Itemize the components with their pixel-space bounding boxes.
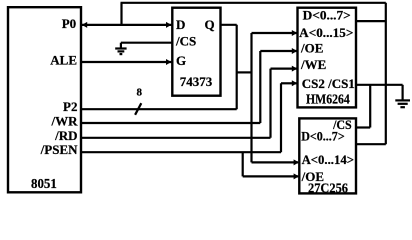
wire D<0...7> of HM6264 to data bus — [356, 20, 386, 22]
svg-text:D: D — [176, 17, 185, 32]
ground G1 bar3 — [120, 53, 123, 55]
wire /CS of 27C256 up to ground wire — [369, 85, 371, 128]
ground G1 stem — [120, 43, 122, 49]
svg-text:74373: 74373 — [180, 74, 213, 89]
ground G1 bar2 — [118, 50, 125, 52]
ground G2 bar1 — [395, 99, 410, 101]
svg-text:ALE: ALE — [50, 53, 77, 68]
wire data bus vertical right — [385, 3, 387, 144]
wire Q vertical down to P2 — [236, 25, 238, 109]
wire latch Q out — [221, 24, 237, 26]
wire /PSEN from 8051 — [81, 151, 281, 153]
svg-text:/WE: /WE — [300, 57, 326, 72]
arrowhead into /OE of 27C256 — [294, 173, 299, 179]
RAM HM6264 box — [298, 8, 357, 108]
svg-text:A<0...15>: A<0...15> — [299, 25, 353, 40]
svg-text:27C256: 27C256 — [308, 182, 348, 197]
arrowhead into 8051 P0 — [82, 22, 87, 28]
wire D<0...7> of 27C256 to data bus — [356, 143, 386, 145]
wire into /WE of HM6264 — [271, 67, 297, 69]
svg-text:/RD: /RD — [54, 128, 77, 143]
wire branch P0 up to top data bus — [120, 3, 122, 25]
wire bridge Q/P2 to address vertical — [237, 71, 252, 73]
ground G1 bar1 — [115, 47, 126, 49]
wire into /OE of HM6264 — [260, 50, 296, 52]
svg-text:G: G — [176, 53, 186, 68]
wire top data bus — [121, 2, 386, 4]
wire into /OE of 27C256 — [243, 175, 299, 177]
wire /WR from 8051 — [81, 122, 260, 124]
ground G2 bar3 — [400, 106, 405, 108]
ground G2 stem — [402, 85, 404, 101]
bus width slash on P2 — [135, 103, 141, 115]
latch 74373 box — [172, 8, 220, 96]
ground G2 bar2 — [398, 103, 408, 105]
svg-text:Q: Q — [204, 17, 214, 32]
wire into CS2 of HM6264 — [281, 82, 297, 84]
arrowhead into /WE of HM6264 — [292, 66, 297, 72]
svg-text:/WR: /WR — [51, 114, 79, 129]
svg-text:CS2 /CS1: CS2 /CS1 — [302, 76, 355, 91]
wire address vertical — [250, 33, 252, 162]
svg-text:HM6264: HM6264 — [306, 92, 350, 107]
arrowhead into latch D — [166, 22, 171, 28]
svg-text:P0: P0 — [62, 16, 76, 31]
wire P2 from 8051 — [81, 108, 237, 110]
wire /PSEN branch down to 27C256 /OE — [242, 152, 244, 176]
wire /RD up to HM6264 /WE — [269, 69, 271, 138]
arrowhead into A<0...14> — [294, 159, 299, 165]
svg-text:/OE: /OE — [300, 41, 323, 56]
wire latch /CS to ground — [121, 42, 172, 44]
wire address to HM6264 A<0...15> — [252, 32, 297, 34]
ROM 27C256 box — [299, 118, 356, 193]
wire CS1 of HM6264 to ground — [356, 84, 403, 86]
arrowhead into CS2 of HM6264 — [292, 80, 297, 86]
svg-text:A<0...14>: A<0...14> — [302, 152, 354, 167]
svg-text:/PSEN: /PSEN — [40, 142, 78, 157]
arrowhead into latch G — [166, 59, 171, 65]
svg-text:D<0...7>: D<0...7> — [301, 128, 345, 143]
8051 U1 box — [8, 7, 81, 192]
wire P0 bus (8051 P0 to latch D, bidirectional) — [81, 24, 172, 26]
svg-text:8051: 8051 — [31, 177, 57, 192]
svg-text:P2: P2 — [63, 99, 77, 114]
svg-text:/CS: /CS — [175, 34, 196, 49]
wire ALE to latch G — [81, 61, 172, 63]
wire /RD from 8051 — [81, 137, 271, 139]
svg-text:8: 8 — [137, 87, 143, 99]
svg-text:D<0...7>: D<0...7> — [303, 7, 351, 22]
arrowhead into /OE of HM6264 — [292, 48, 297, 54]
arrowhead into A<0...15> — [292, 30, 297, 36]
wire /PSEN up to HM6264 CS2 — [280, 83, 282, 152]
wire address to 27C256 A<0...14> — [252, 161, 299, 163]
wire /WR up to HM6264 /OE — [259, 51, 261, 123]
wire /CS of 27C256 right — [356, 126, 370, 128]
